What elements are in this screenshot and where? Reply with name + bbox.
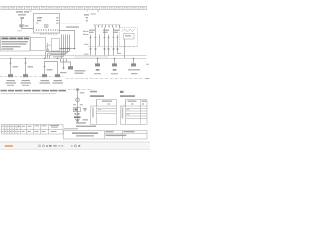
switch labels <box>89 30 95 31</box>
table T1 <box>91 100 117 125</box>
table T2 title <box>120 91 124 93</box>
switch bank plugs row <box>95 25 120 27</box>
arrow spur <box>63 62 65 68</box>
connector X7 <box>114 59 116 64</box>
side symbol <box>83 108 87 109</box>
toolbar icon page-thumb <box>39 145 81 147</box>
band junction dots <box>10 58 134 59</box>
branch connector cross <box>76 88 78 90</box>
toolbar logo orange <box>5 145 14 147</box>
ground wire W1 <box>10 59 12 75</box>
table T2 <box>121 100 148 125</box>
U1 internal component <box>45 25 49 28</box>
connector X3 <box>42 74 47 77</box>
note text above title block <box>76 122 86 123</box>
wire label text <box>66 26 79 27</box>
wire label right of bundle <box>84 44 89 45</box>
U1 connector dashed row <box>40 33 57 36</box>
wire to box <box>22 27 34 29</box>
relay coil box <box>124 34 135 40</box>
dashes <box>17 29 22 32</box>
table T1 title <box>90 91 97 93</box>
wire from U1 to node <box>60 31 75 49</box>
switch contact marks <box>89 37 118 38</box>
bundle corners west into harness <box>46 49 70 59</box>
bundle below band to connector X5 <box>61 59 71 67</box>
switch bank wires <box>91 28 122 56</box>
contact cross marks <box>90 48 119 50</box>
tick <box>87 9 88 12</box>
box K2 <box>52 39 60 52</box>
wire bundle from U1 pins <box>62 35 70 49</box>
junction dots <box>61 48 76 50</box>
connector X1 <box>8 74 13 77</box>
U1 right-side marks <box>56 17 58 18</box>
viewer toolbar background <box>0 142 150 150</box>
branch dash-dot segment <box>68 89 93 91</box>
U1 pin row <box>36 29 58 31</box>
joint node <box>47 43 49 52</box>
ground wire W2 <box>25 59 27 75</box>
faint wire labels on band <box>74 56 108 57</box>
fuse F1 <box>20 25 25 27</box>
connector pair marks <box>75 113 77 115</box>
separator dash-dot line right <box>66 78 147 80</box>
dotted underline <box>1 92 57 95</box>
reference strip cell text <box>3 7 146 8</box>
top-left label text <box>16 11 23 12</box>
lamp E1 <box>76 98 80 102</box>
label line 2 <box>18 14 26 15</box>
connector X4 <box>55 74 60 77</box>
caption text line <box>1 90 67 92</box>
steering column switch text block <box>1 37 31 52</box>
box K1 <box>31 38 46 51</box>
ground G1 <box>74 116 81 118</box>
separator dash-dot line left <box>0 76 64 78</box>
battery symbol B1 <box>20 17 24 19</box>
relay K5 dashed box <box>120 28 138 47</box>
fuse S1 small top <box>84 14 89 15</box>
label <box>73 104 76 105</box>
heading STEERING COLUMN SWITCH <box>2 38 30 40</box>
terminal marks 30/15 <box>84 31 85 32</box>
connector X6 <box>97 59 99 64</box>
relay contacts zigzag <box>122 29 136 32</box>
U1 internal label <box>37 17 42 18</box>
legend table cell text <box>2 125 59 132</box>
dotted line from U1 right <box>60 23 81 25</box>
connector X2 <box>23 74 28 77</box>
bottom-left legend table <box>2 125 64 135</box>
control unit box U1 <box>34 14 60 34</box>
title block <box>64 131 148 140</box>
wire <box>21 19 23 24</box>
connector X8 <box>133 59 135 64</box>
junction bus <box>59 48 75 50</box>
text lines <box>2 41 29 42</box>
wire pair W3 W4 <box>45 62 58 75</box>
lamp branch wire <box>77 89 79 123</box>
connector X5 <box>68 66 73 69</box>
page bottom edge <box>0 141 150 144</box>
relay wire down <box>124 39 126 58</box>
top reference strip of numbered boxes <box>1 7 147 10</box>
component box <box>74 108 81 112</box>
harness bus band <box>0 55 147 57</box>
mechanical linkage dash-dot line <box>88 46 137 48</box>
